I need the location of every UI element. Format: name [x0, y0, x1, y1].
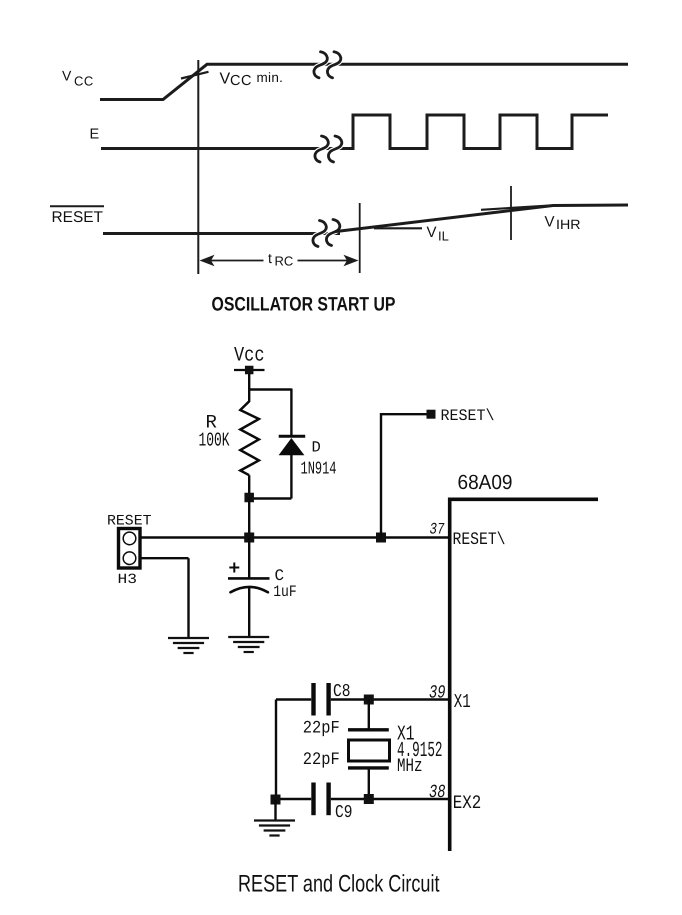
svg-text:IHR: IHR	[556, 217, 581, 232]
svg-text:D: D	[312, 439, 321, 457]
svg-text:38: 38	[429, 782, 446, 803]
svg-text:C8: C8	[333, 682, 351, 702]
svg-text:IL: IL	[438, 229, 449, 244]
svg-text:RESET: RESET	[52, 209, 104, 226]
svg-text:Vcc: Vcc	[234, 345, 265, 368]
svg-text:100K: 100K	[199, 429, 230, 451]
svg-text:CC: CC	[74, 73, 94, 88]
svg-text:EX2: EX2	[453, 792, 482, 814]
svg-text:OSCILLATOR START UP: OSCILLATOR START UP	[212, 293, 396, 315]
svg-text:X1: X1	[454, 691, 471, 713]
svg-text:t: t	[268, 250, 272, 266]
svg-text:min.: min.	[257, 70, 284, 85]
svg-text:1N914: 1N914	[301, 460, 337, 480]
svg-text:RC: RC	[275, 253, 294, 268]
svg-text:MHz: MHz	[397, 755, 423, 777]
svg-text:V: V	[427, 224, 437, 241]
svg-text:39: 39	[429, 683, 446, 704]
svg-text:RESET\: RESET\	[441, 407, 495, 425]
svg-text:RESET and Clock Circuit: RESET and Clock Circuit	[238, 870, 440, 897]
svg-text:68A09: 68A09	[458, 471, 513, 494]
svg-text:CC: CC	[230, 73, 252, 89]
svg-text:RESET\: RESET\	[453, 530, 506, 550]
svg-text:1uF: 1uF	[273, 583, 297, 601]
svg-text:C9: C9	[335, 803, 353, 823]
svg-text:V: V	[62, 68, 72, 84]
svg-text:22pF: 22pF	[303, 719, 340, 739]
svg-text:H3: H3	[118, 572, 138, 588]
svg-text:V: V	[545, 214, 555, 231]
svg-text:E: E	[90, 127, 100, 143]
svg-text:37: 37	[430, 520, 445, 538]
svg-text:22pF: 22pF	[303, 750, 340, 770]
svg-text:V: V	[220, 71, 231, 88]
